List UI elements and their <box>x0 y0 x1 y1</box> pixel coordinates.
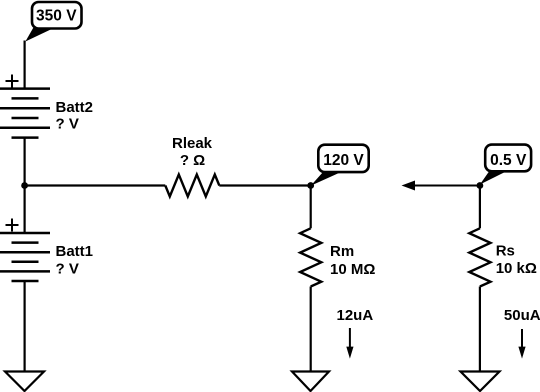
callout 0.5 V <box>480 145 531 185</box>
svg-text:? Ω: ? Ω <box>180 152 205 169</box>
resistor Rm <box>300 228 321 286</box>
battery Batt1 <box>0 233 50 281</box>
svg-text:120 V: 120 V <box>323 152 364 169</box>
svg-text:Batt1: Batt1 <box>56 243 94 260</box>
svg-text:Rleak: Rleak <box>172 135 213 152</box>
svg-text:Rs: Rs <box>496 242 515 259</box>
svg-text:10 MΩ: 10 MΩ <box>330 261 375 278</box>
ground middle <box>292 372 329 392</box>
wire node to Rm <box>310 186 312 229</box>
svg-text:Batt2: Batt2 <box>56 99 94 116</box>
node junction dot left <box>21 182 28 189</box>
wire node to Rs <box>479 186 481 229</box>
node junction dot 120V <box>307 182 314 189</box>
arrow current 12uA <box>346 328 353 359</box>
svg-text:Rm: Rm <box>330 243 354 260</box>
wire Rs to ground <box>479 287 481 372</box>
svg-text:10 kΩ: 10 kΩ <box>496 260 537 277</box>
arrow probe left <box>402 181 480 191</box>
wire Batt2 bottom to Batt1 top <box>24 138 26 233</box>
wire junction to Rleak <box>25 184 166 186</box>
battery Batt2 <box>0 89 50 138</box>
wire callout to Batt2 top <box>24 41 26 90</box>
node junction dot 0.5V <box>477 182 484 189</box>
svg-text:? V: ? V <box>56 116 79 133</box>
ground left <box>5 372 44 392</box>
svg-text:0.5 V: 0.5 V <box>490 152 527 169</box>
callout 350 V <box>25 2 81 42</box>
svg-text:12uA: 12uA <box>337 307 374 324</box>
wire Rm to ground <box>310 287 312 372</box>
ground right <box>461 372 500 392</box>
callout 120 V <box>311 145 369 186</box>
resistor Rs <box>469 228 490 286</box>
arrow current 50uA <box>518 329 525 359</box>
svg-text:? V: ? V <box>56 260 79 277</box>
svg-text:50uA: 50uA <box>504 307 540 324</box>
plus sign Batt1 <box>6 219 19 232</box>
svg-text:350 V: 350 V <box>36 7 77 24</box>
resistor Rleak <box>165 175 219 197</box>
plus sign Batt2 <box>6 75 19 88</box>
wire Rleak to node 120V <box>219 184 310 186</box>
wire Batt1 bottom to ground <box>24 281 26 372</box>
